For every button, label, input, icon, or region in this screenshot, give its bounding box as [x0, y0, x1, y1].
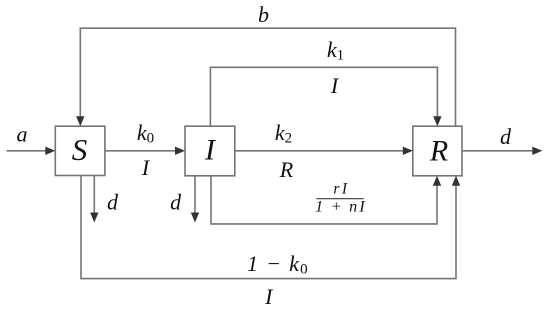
- svg-text:k0: k0: [137, 120, 154, 147]
- wire k1 loop from I top to R top: [210, 67, 441, 126]
- svg-text:I: I: [141, 155, 151, 180]
- svg-text:1 + nI: 1 + nI: [315, 199, 367, 216]
- wire input a: [7, 147, 56, 155]
- block R: [413, 126, 462, 176]
- wire I to R: [235, 147, 413, 155]
- svg-text:d: d: [500, 124, 512, 149]
- svg-text:k1: k1: [327, 37, 344, 64]
- svg-text:I: I: [330, 73, 340, 98]
- svg-text:b: b: [258, 2, 269, 27]
- svg-text:I: I: [264, 284, 274, 309]
- label fraction rI over 1+nI: [315, 180, 367, 215]
- svg-text:rI: rI: [333, 180, 349, 197]
- wire 1-k0 loop from S bottom to R bottom: [81, 176, 460, 279]
- wire I death d: [191, 176, 199, 223]
- wire b loop from R top to S top: [76, 28, 455, 126]
- svg-text:d: d: [170, 190, 182, 215]
- svg-text:S: S: [72, 132, 88, 167]
- svg-text:I: I: [204, 134, 217, 167]
- svg-text:1 − k0: 1 − k0: [247, 251, 309, 278]
- block I: [185, 126, 235, 176]
- wire S to I: [105, 147, 185, 155]
- svg-text:R: R: [279, 157, 294, 182]
- wire R output d: [462, 147, 542, 155]
- block S: [55, 126, 105, 175]
- svg-text:a: a: [17, 122, 28, 147]
- svg-text:R: R: [429, 135, 448, 168]
- wire S death d: [90, 176, 98, 223]
- svg-text:d: d: [107, 190, 119, 215]
- wire rI/(1+nI) loop from I bottom to R bottom: [211, 176, 441, 224]
- svg-text:k2: k2: [275, 120, 292, 147]
